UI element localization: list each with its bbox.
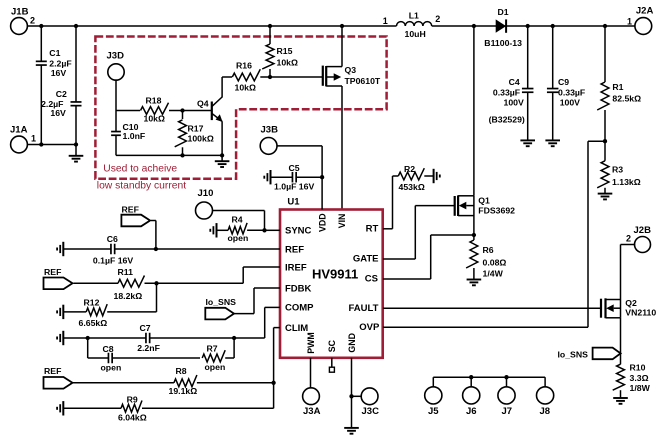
svg-text:VN2110: VN2110 (625, 307, 656, 317)
svg-text:J1B: J1B (11, 7, 29, 18)
svg-text:RT: RT (366, 224, 379, 235)
svg-text:10kΩ: 10kΩ (144, 113, 165, 123)
svg-text:TP0610T: TP0610T (345, 76, 381, 86)
svg-text:J3A: J3A (303, 406, 321, 417)
svg-text:C8: C8 (103, 344, 114, 354)
svg-text:IREF: IREF (285, 263, 307, 274)
svg-text:J2A: J2A (636, 6, 654, 17)
svg-text:(B32529): (B32529) (489, 115, 525, 125)
svg-text:open: open (205, 362, 226, 372)
svg-text:R7: R7 (207, 344, 218, 354)
svg-text:open: open (228, 233, 249, 243)
svg-text:453kΩ: 453kΩ (399, 182, 425, 192)
svg-text:R6: R6 (483, 245, 494, 255)
svg-text:R17: R17 (188, 123, 204, 133)
svg-text:2: 2 (435, 14, 440, 24)
svg-text:R15: R15 (277, 46, 293, 56)
svg-text:C6: C6 (107, 234, 118, 244)
svg-text:10uH: 10uH (405, 29, 426, 39)
svg-text:R10: R10 (630, 363, 646, 373)
svg-text:PWM: PWM (306, 332, 316, 354)
svg-text:low standby current: low standby current (97, 181, 186, 192)
svg-text:3.3Ω: 3.3Ω (630, 373, 649, 383)
svg-text:U1: U1 (287, 197, 300, 208)
svg-text:C7: C7 (140, 323, 151, 333)
svg-text:J3B: J3B (261, 125, 279, 136)
svg-text:Q1: Q1 (478, 195, 490, 205)
svg-text:1/4W: 1/4W (483, 269, 504, 279)
svg-text:19.1kΩ: 19.1kΩ (169, 386, 198, 396)
svg-text:J5: J5 (428, 406, 439, 417)
svg-text:CS: CS (365, 274, 378, 285)
svg-text:R8: R8 (176, 366, 187, 376)
svg-text:open: open (101, 363, 122, 373)
svg-text:J2B: J2B (634, 225, 652, 236)
svg-text:Used to acheive: Used to acheive (103, 164, 177, 175)
svg-text:82.5kΩ: 82.5kΩ (612, 93, 641, 103)
svg-text:R2: R2 (404, 164, 415, 174)
svg-text:R3: R3 (612, 165, 623, 175)
svg-text:OVP: OVP (359, 322, 380, 333)
svg-text:100kΩ: 100kΩ (188, 133, 214, 143)
svg-text:18.2kΩ: 18.2kΩ (114, 291, 143, 301)
svg-text:16V: 16V (50, 108, 66, 118)
svg-text:100V: 100V (560, 98, 580, 108)
svg-text:SYNC: SYNC (285, 226, 312, 237)
svg-text:100V: 100V (504, 98, 524, 108)
svg-text:REF: REF (44, 366, 61, 376)
svg-text:R12: R12 (84, 297, 100, 307)
svg-text:1.0µF 16V: 1.0µF 16V (274, 181, 314, 191)
svg-text:C5: C5 (289, 163, 300, 173)
svg-text:FDS3692: FDS3692 (478, 205, 515, 215)
svg-text:HV9911: HV9911 (312, 267, 358, 282)
svg-text:SC: SC (327, 339, 337, 352)
svg-text:FAULT: FAULT (348, 303, 378, 314)
svg-text:Io_SNS: Io_SNS (558, 349, 589, 359)
svg-text:2: 2 (626, 234, 631, 244)
svg-text:2.2nF: 2.2nF (137, 343, 160, 353)
svg-text:R9: R9 (127, 394, 138, 404)
svg-text:J8: J8 (540, 406, 551, 417)
svg-text:1.0nF: 1.0nF (123, 131, 146, 141)
svg-text:0.33µF: 0.33µF (493, 88, 520, 98)
svg-text:J3C: J3C (362, 406, 380, 417)
svg-text:B1100-13: B1100-13 (484, 38, 522, 48)
svg-text:C4: C4 (509, 77, 520, 87)
svg-text:VDD: VDD (317, 213, 327, 232)
svg-text:1/8W: 1/8W (630, 383, 651, 393)
svg-text:D1: D1 (498, 7, 509, 17)
svg-text:VIN: VIN (337, 214, 347, 229)
svg-text:REF: REF (122, 204, 139, 214)
svg-text:J3D: J3D (107, 51, 125, 62)
svg-text:R18: R18 (146, 96, 162, 106)
svg-text:R4: R4 (232, 215, 243, 225)
svg-text:REF: REF (285, 244, 304, 255)
svg-text:R11: R11 (118, 267, 134, 277)
svg-text:GATE: GATE (353, 254, 379, 265)
svg-text:C1: C1 (49, 48, 60, 58)
svg-text:J6: J6 (466, 406, 477, 417)
svg-text:C9: C9 (558, 77, 569, 87)
svg-text:6.04kΩ: 6.04kΩ (118, 413, 147, 423)
svg-text:2: 2 (30, 15, 35, 25)
svg-text:10kΩ: 10kΩ (235, 83, 256, 93)
svg-text:J7: J7 (502, 406, 513, 417)
svg-text:COMP: COMP (285, 303, 314, 314)
svg-text:J10: J10 (198, 188, 214, 199)
svg-text:10kΩ: 10kΩ (277, 57, 298, 67)
svg-text:REF: REF (44, 267, 61, 277)
svg-text:16V: 16V (51, 68, 67, 78)
svg-text:Io_SNS: Io_SNS (206, 297, 237, 307)
svg-text:1: 1 (31, 134, 36, 144)
svg-text:CLIM: CLIM (285, 323, 308, 334)
svg-text:FDBK: FDBK (285, 284, 312, 295)
svg-text:0.1µF 16V: 0.1µF 16V (93, 256, 133, 266)
svg-text:L1: L1 (409, 10, 419, 20)
svg-text:1: 1 (383, 16, 388, 26)
svg-text:R1: R1 (612, 82, 623, 92)
svg-text:6.65kΩ: 6.65kΩ (79, 318, 108, 328)
svg-text:R16: R16 (236, 61, 252, 71)
svg-text:J1A: J1A (10, 125, 28, 136)
svg-text:0.33µF: 0.33µF (558, 88, 585, 98)
svg-text:C2: C2 (56, 89, 67, 99)
svg-text:Q3: Q3 (345, 65, 357, 75)
svg-text:1: 1 (627, 16, 632, 26)
svg-text:GND: GND (347, 333, 357, 353)
svg-text:1.13kΩ: 1.13kΩ (612, 177, 641, 187)
svg-text:0.08Ω: 0.08Ω (483, 258, 507, 268)
svg-text:Q4: Q4 (197, 99, 209, 109)
